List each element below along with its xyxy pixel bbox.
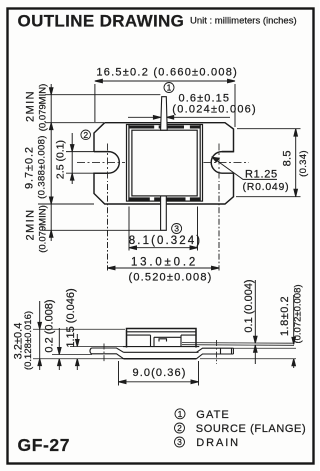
- svg-text:GATE: GATE: [196, 409, 230, 421]
- pin marker 3 (drain): [172, 224, 182, 234]
- svg-text:OUTLINE DRAWING: OUTLINE DRAWING: [18, 12, 185, 31]
- svg-text:(R0.049): (R0.049): [243, 181, 290, 193]
- side view hole centerline right: [216, 340, 218, 364]
- ceramic body outer rect: [127, 125, 203, 202]
- side view center lead tab inner bump: [159, 339, 167, 342]
- centerline right horizontal: [204, 161, 250, 163]
- drain lead (bottom): [161, 196, 167, 230]
- svg-text:GF-27: GF-27: [18, 435, 71, 455]
- pin marker 1 (gate): [164, 83, 174, 93]
- svg-text:2MIN: 2MIN: [24, 90, 36, 122]
- dim 1.15 line and arrows: [76, 334, 78, 346]
- dim 8.1 extension lines: [128, 207, 130, 251]
- svg-text:1.15 (0.046): 1.15 (0.046): [65, 288, 77, 347]
- svg-text:(0.520±0.008): (0.520±0.008): [128, 271, 212, 283]
- svg-text:2: 2: [83, 130, 88, 140]
- side view drain lead lines right: [182, 343, 294, 346]
- svg-text:1: 1: [167, 83, 172, 93]
- side view right flange tab bottom: [197, 354, 234, 359]
- dim 1.8 line and arrows: [293, 295, 295, 344]
- legend pin 3: [175, 437, 241, 449]
- dim 3.2 extension lines: [33, 328, 125, 330]
- dim 3.2 line and arrows: [39, 301, 41, 370]
- svg-text:3: 3: [177, 437, 182, 447]
- svg-text:0.1 (0.004): 0.1 (0.004): [243, 279, 255, 332]
- dim 9.0 line: [119, 381, 199, 383]
- side view right tab end: [232, 348, 234, 354]
- dim 16.5 extension lines: [94, 84, 96, 122]
- side view cap inner line 1: [127, 331, 197, 333]
- side view dim texts: [13, 279, 292, 359]
- svg-text:0.2 (0.008): 0.2 (0.008): [44, 299, 56, 352]
- svg-text:(0.128±0.016): (0.128±0.016): [23, 311, 34, 370]
- svg-text:(0.072±0.008): (0.072±0.008): [293, 284, 304, 343]
- dim 8.5 extension lines: [237, 128, 301, 130]
- centerline right vertical: [218, 144, 220, 183]
- right mounting slot: [211, 152, 233, 174]
- body top metallization band: [129, 125, 200, 200]
- svg-text:9.7±0.2: 9.7±0.2: [24, 146, 36, 189]
- svg-text:(0.024±0.006): (0.024±0.006): [172, 104, 257, 116]
- side view hole centerline left: [103, 344, 105, 363]
- body metallization line left: [128, 125, 130, 202]
- svg-text:Unit : millimeters (inches): Unit : millimeters (inches): [190, 16, 297, 27]
- gate lead (top): [161, 97, 168, 131]
- R1.25 leader: [213, 158, 278, 180]
- svg-text:2MIN: 2MIN: [24, 209, 36, 241]
- pin marker 2 (source flange): [81, 130, 91, 140]
- svg-text:8.5: 8.5: [282, 150, 294, 166]
- svg-text:1: 1: [178, 409, 183, 419]
- side view cap top: [127, 329, 197, 348]
- body bottom metallization band: [129, 197, 150, 200]
- centerline left vertical: [107, 144, 109, 183]
- side view left flange tab bottom: [92, 354, 124, 359]
- svg-text:16.5±0.2 (0.660±0.008): 16.5±0.2 (0.660±0.008): [96, 67, 238, 79]
- side view left flange tab top: [92, 348, 124, 352]
- dim 2.5 slot arrows: [71, 133, 73, 184]
- svg-text:(0.34): (0.34): [298, 150, 309, 177]
- svg-text:13.0±0.2: 13.0±0.2: [131, 257, 198, 269]
- dim 0.2 line and arrows: [58, 328, 60, 354]
- svg-text:1.8±0.2: 1.8±0.2: [279, 296, 291, 336]
- dim 1.8 extension lines: [234, 347, 297, 349]
- svg-text:2: 2: [177, 423, 182, 433]
- legend pin 2: [175, 423, 307, 435]
- svg-text:DRAIN: DRAIN: [196, 437, 240, 449]
- left mounting slot: [94, 152, 119, 174]
- side view right slot edges: [221, 348, 232, 354]
- dim 16.5 line: [95, 80, 235, 82]
- svg-text:(0.079MIN): (0.079MIN): [37, 205, 48, 253]
- dim 9.0 extension lines: [118, 361, 120, 386]
- legend pin 1: [175, 409, 230, 421]
- side view right flange tab top: [197, 348, 234, 352]
- side view center lead tab: [151, 335, 182, 347]
- svg-text:SOURCE (FLANGE): SOURCE (FLANGE): [196, 423, 306, 435]
- ceramic body inner rect: [132, 130, 197, 196]
- svg-text:2.5 (0.1): 2.5 (0.1): [55, 140, 67, 179]
- left dim chain: extension lines: [45, 94, 160, 96]
- svg-text:(0.388±0.008): (0.388±0.008): [37, 135, 48, 199]
- dim 13.0 extension lines (hole centers): [107, 184, 109, 271]
- svg-text:9.0(0.36): 9.0(0.36): [133, 367, 187, 379]
- left dim chain vertical line: [50, 84, 52, 241]
- svg-text:R1.25: R1.25: [245, 169, 278, 181]
- centerline left horizontal: [77, 161, 125, 163]
- svg-text:3: 3: [174, 224, 179, 234]
- side view cap bottom lip: [123, 346, 199, 348]
- side view left tab end: [90, 348, 92, 354]
- svg-text:(0.079MIN): (0.079MIN): [37, 84, 48, 132]
- body metallization line right: [199, 125, 201, 202]
- dim 0.1 line and arrows: [254, 280, 256, 343]
- side view cap inner line 2: [127, 334, 197, 336]
- side view flange bottom: [124, 358, 197, 360]
- dim 0.6 lead width arrows: [128, 116, 160, 118]
- svg-text:8.1(0.324): 8.1(0.324): [129, 235, 202, 247]
- package flange outline (top view): [94, 123, 234, 204]
- side view flange mid line: [124, 351, 199, 353]
